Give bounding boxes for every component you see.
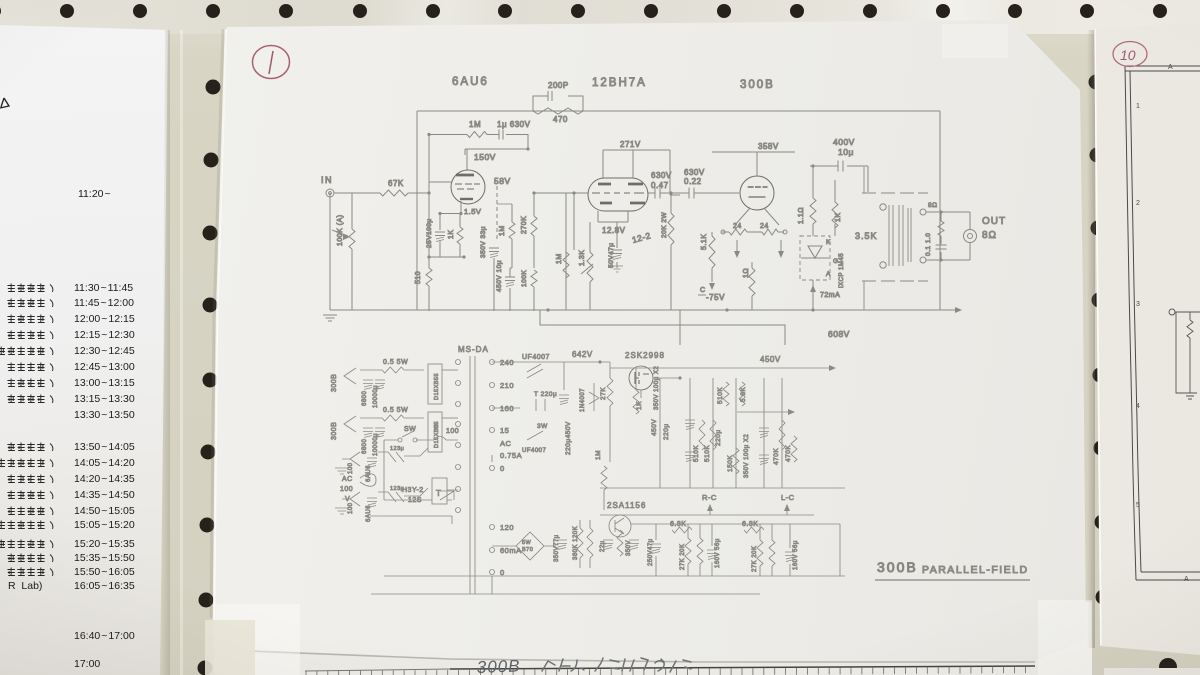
svg-text:2: 2	[1136, 200, 1140, 207]
svg-text:3: 3	[1136, 301, 1140, 308]
svg-text:A: A	[1168, 64, 1173, 71]
svg-text:1: 1	[1136, 103, 1140, 110]
svg-text:4: 4	[1136, 403, 1140, 410]
svg-text:10: 10	[1120, 47, 1136, 63]
svg-text:5: 5	[1136, 502, 1140, 509]
svg-text:A: A	[1184, 576, 1189, 583]
